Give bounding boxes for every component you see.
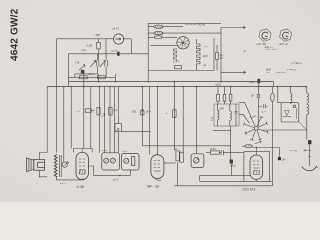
- small box mid: [115, 124, 121, 132]
- wire meter right drop: [130, 39, 132, 54]
- wire under cans: [88, 166, 130, 175]
- wheel left feeds: [239, 102, 252, 123]
- svg-text:C·/4T: C·/4T: [173, 61, 180, 64]
- left verticals to bottom: [64, 82, 221, 162]
- twin box 1: [176, 151, 180, 161]
- rf coil box: [191, 154, 204, 168]
- cap C small mid: [230, 160, 233, 176]
- junction dot: [149, 131, 151, 133]
- tube V2: [151, 155, 164, 179]
- wire bus B left corner drop: [46, 87, 48, 153]
- svg-text:µF2: µF2: [113, 109, 118, 112]
- wire y145.8 link: [142, 145, 230, 147]
- svg-text:µF/µ: µF/µ: [231, 165, 237, 168]
- resistor R8 vertical: [109, 108, 112, 116]
- meter M: [114, 34, 124, 44]
- wire pill left leg: [242, 87, 246, 147]
- wire tube2 right: [164, 162, 176, 164]
- IF1 box top line: [148, 22, 221, 24]
- mains blob connector: [308, 140, 311, 144]
- svg-text:+µF/µ: +µF/µ: [215, 83, 222, 86]
- twin box 2: [180, 152, 184, 162]
- osc coil meander left: [174, 48, 177, 60]
- speaker magnet: [34, 159, 45, 170]
- heater arrow tube3: [255, 141, 261, 144]
- resistor R3 on comp line: [97, 76, 105, 79]
- svg-text:µF/2: µF/2: [203, 55, 209, 58]
- component line y77: [69, 76, 116, 78]
- wire x118 box feed: [117, 87, 119, 153]
- svg-text:-C2·3: -C2·3: [88, 73, 95, 76]
- svg-text:··••·•·••··••·•· NL WL: ··••·•·••··••·•· NL WL: [184, 24, 206, 27]
- IF1 shield box left edge: [147, 23, 149, 81]
- resistor R4 vertical: [216, 45, 219, 71]
- svg-text:µF AT: µF AT: [113, 28, 120, 31]
- svg-text:•·•··•·µ: •·•··•·µ: [290, 149, 298, 152]
- pill coil above tube3: [245, 145, 280, 158]
- svg-text:UY2 M·2: UY2 M·2: [243, 188, 256, 192]
- svg-text:•·•·•·•·•·•·: •·•·•·•·•·•·: [276, 72, 286, 75]
- svg-text:•·•·••·: •·•·••·: [102, 149, 108, 152]
- output transformer winding: [54, 155, 57, 178]
- wire lower link line: [69, 53, 149, 55]
- trimmer arrow mid: [101, 114, 105, 118]
- svg-text:•·•·••+.µ: •·•·••+.µ: [287, 69, 296, 72]
- svg-text:µF.µ: µF.µ: [250, 81, 255, 84]
- IF2 cap: [235, 104, 238, 126]
- tuning gang circle: [177, 37, 189, 49]
- IF1 box right edge: [213, 38, 215, 71]
- bottom wire y181: [200, 180, 272, 182]
- resistor R5 bottom horiz: [174, 66, 181, 69]
- svg-text:·•·•·•: ·•·•·•: [122, 151, 127, 154]
- svg-text:µF•: µF•: [282, 158, 286, 161]
- svg-text:300: 300: [132, 110, 137, 113]
- mains cable arc: [302, 166, 318, 170]
- IF1 box bottom line: [148, 70, 214, 72]
- bottom wire y186: [174, 179, 271, 185]
- electrolytic E2: [223, 87, 226, 104]
- resistor R9 vertical: [173, 110, 176, 118]
- wire arrow2 heater: [221, 71, 246, 73]
- hexagon socket 2: [279, 28, 292, 43]
- bus B (chassis rail): [47, 86, 306, 88]
- svg-text:•·••· ·•·••·•: •·••· ·•·••·•: [266, 48, 277, 51]
- resistor uFStr: [206, 151, 219, 154]
- jack circle: [62, 162, 68, 168]
- wire top anode line: [57, 38, 132, 40]
- coil L2 pill: [148, 31, 221, 34]
- capacitor blob on link line: [117, 52, 119, 56]
- svg-text:·•·•: ·•·•: [266, 72, 269, 75]
- trimmer cap C1 blob: [79, 65, 85, 74]
- mains tick marks: [308, 150, 311, 156]
- svg-text:µF: µF: [203, 64, 206, 67]
- svg-text:4642 GW/2: 4642 GW/2: [10, 8, 21, 61]
- svg-text:•·•• ·•·: •·•• ·•·: [60, 183, 67, 186]
- right col coil pair far: [307, 87, 309, 140]
- right col drop 2: [278, 87, 281, 103]
- busA right corner down: [273, 82, 275, 87]
- wire left drop from top line: [56, 39, 58, 153]
- arrow netz: [304, 149, 307, 151]
- osc coil meander right: [197, 39, 200, 71]
- bus junction dots: [56, 81, 307, 88]
- IF can 1: [102, 153, 120, 170]
- coil L3 pill: [148, 36, 177, 39]
- wire y131.7: [121, 131, 149, 133]
- hexagon socket 1: [258, 28, 271, 43]
- detector box: [281, 103, 299, 122]
- wire tube2 cathode hook: [155, 179, 161, 181]
- electrolytic E3: [229, 87, 232, 104]
- trimmer cap C3: [100, 54, 108, 77]
- cap series: [219, 150, 244, 155]
- mains lead: [309, 144, 311, 166]
- svg-text:µFStr: µFStr: [210, 148, 216, 151]
- busA to busB blob cap: [257, 79, 260, 87]
- svg-text:·0•: ·0•: [243, 50, 246, 53]
- wire lower rung: [150, 44, 177, 46]
- wire drop x84: [83, 71, 85, 87]
- resistor R2 on comp line: [79, 76, 87, 79]
- wire drop x115: [114, 74, 116, 82]
- bus A (HT rail): [69, 81, 274, 83]
- IF2 box: [214, 104, 239, 126]
- bottom wire y175 right: [200, 175, 250, 181]
- junction dot pill line: [256, 147, 258, 149]
- svg-text:·/BF ··Q•: ·/BF ··Q•: [146, 185, 160, 189]
- wire twin down: [177, 162, 179, 186]
- svg-text:0,1M: 0,1M: [87, 45, 92, 48]
- IF2 coil left: [217, 104, 219, 126]
- speaker wires: [39, 153, 47, 177]
- svg-text:∿∿: ∿∿: [204, 46, 208, 49]
- right column resistor oval: [271, 87, 275, 186]
- coil L1 pill: [148, 25, 183, 28]
- trimmer cap C2: [90, 54, 99, 74]
- wire transformer bottom: [57, 177, 84, 180]
- wire meter left drop: [105, 39, 107, 54]
- wire y130 link: [263, 122, 307, 130]
- wire trimmer bottom link: [75, 74, 98, 77]
- arrow mid2: [116, 128, 119, 132]
- resistor row: R6: [85, 109, 94, 112]
- tube V1: [76, 149, 88, 180]
- wheel switch: [243, 116, 268, 141]
- svg-text:+227 ·0•: +227 ·0•: [279, 43, 288, 46]
- electrolytic E1: [217, 87, 220, 104]
- svg-text:µFE: µFE: [220, 107, 225, 110]
- svg-text:µ ·•: µ ·•: [262, 110, 266, 113]
- speaker cone: [27, 158, 34, 172]
- tube3 shield box: [244, 152, 270, 182]
- svg-text:·+·: ·+·: [165, 112, 168, 115]
- wheel feed cap: [257, 87, 260, 127]
- svg-text:↗7b: ↗7b: [75, 62, 80, 65]
- svg-text:·•·•: ·•·•: [77, 110, 80, 113]
- svg-text:+·188: +·188: [94, 34, 101, 37]
- svg-text:µ+·9: µ+·9: [113, 179, 119, 182]
- IF can 2: [122, 154, 140, 170]
- junction dot under cans: [119, 175, 121, 177]
- tube V3 rectifier: [250, 148, 263, 180]
- svg-text:3·0•: 3·0•: [211, 116, 214, 121]
- svg-text:µF·•: µF·•: [146, 110, 151, 113]
- tube1 bracket: [73, 149, 92, 153]
- svg-text:µ·? Ø•+.µ: µ·? Ø•+.µ: [292, 62, 303, 65]
- resistor 0,1M vertical: [97, 39, 101, 60]
- wire IF2 bottom stub: [213, 126, 231, 160]
- svg-text:µJ IT: µJ IT: [112, 50, 118, 53]
- svg-text:µF: µF: [251, 94, 254, 97]
- terminal square: [278, 157, 281, 160]
- svg-text:7,01: 7,01: [81, 49, 86, 52]
- right col coil 1: [290, 87, 292, 104]
- transformer core: [60, 155, 62, 177]
- cap C5 vertical: [141, 110, 144, 115]
- wire dial arrow line: [221, 26, 246, 28]
- svg-text:µF•: µF•: [174, 148, 178, 151]
- IF2 coil right: [230, 104, 232, 126]
- svg-text:U·38·: U·38·: [77, 185, 85, 189]
- wire drop x98: [98, 74, 100, 82]
- resistor R7 vertical: [97, 108, 100, 116]
- wire left mid drop: [68, 54, 70, 87]
- wire right vert x221: [220, 28, 222, 82]
- cap C wheel aux: [259, 104, 268, 109]
